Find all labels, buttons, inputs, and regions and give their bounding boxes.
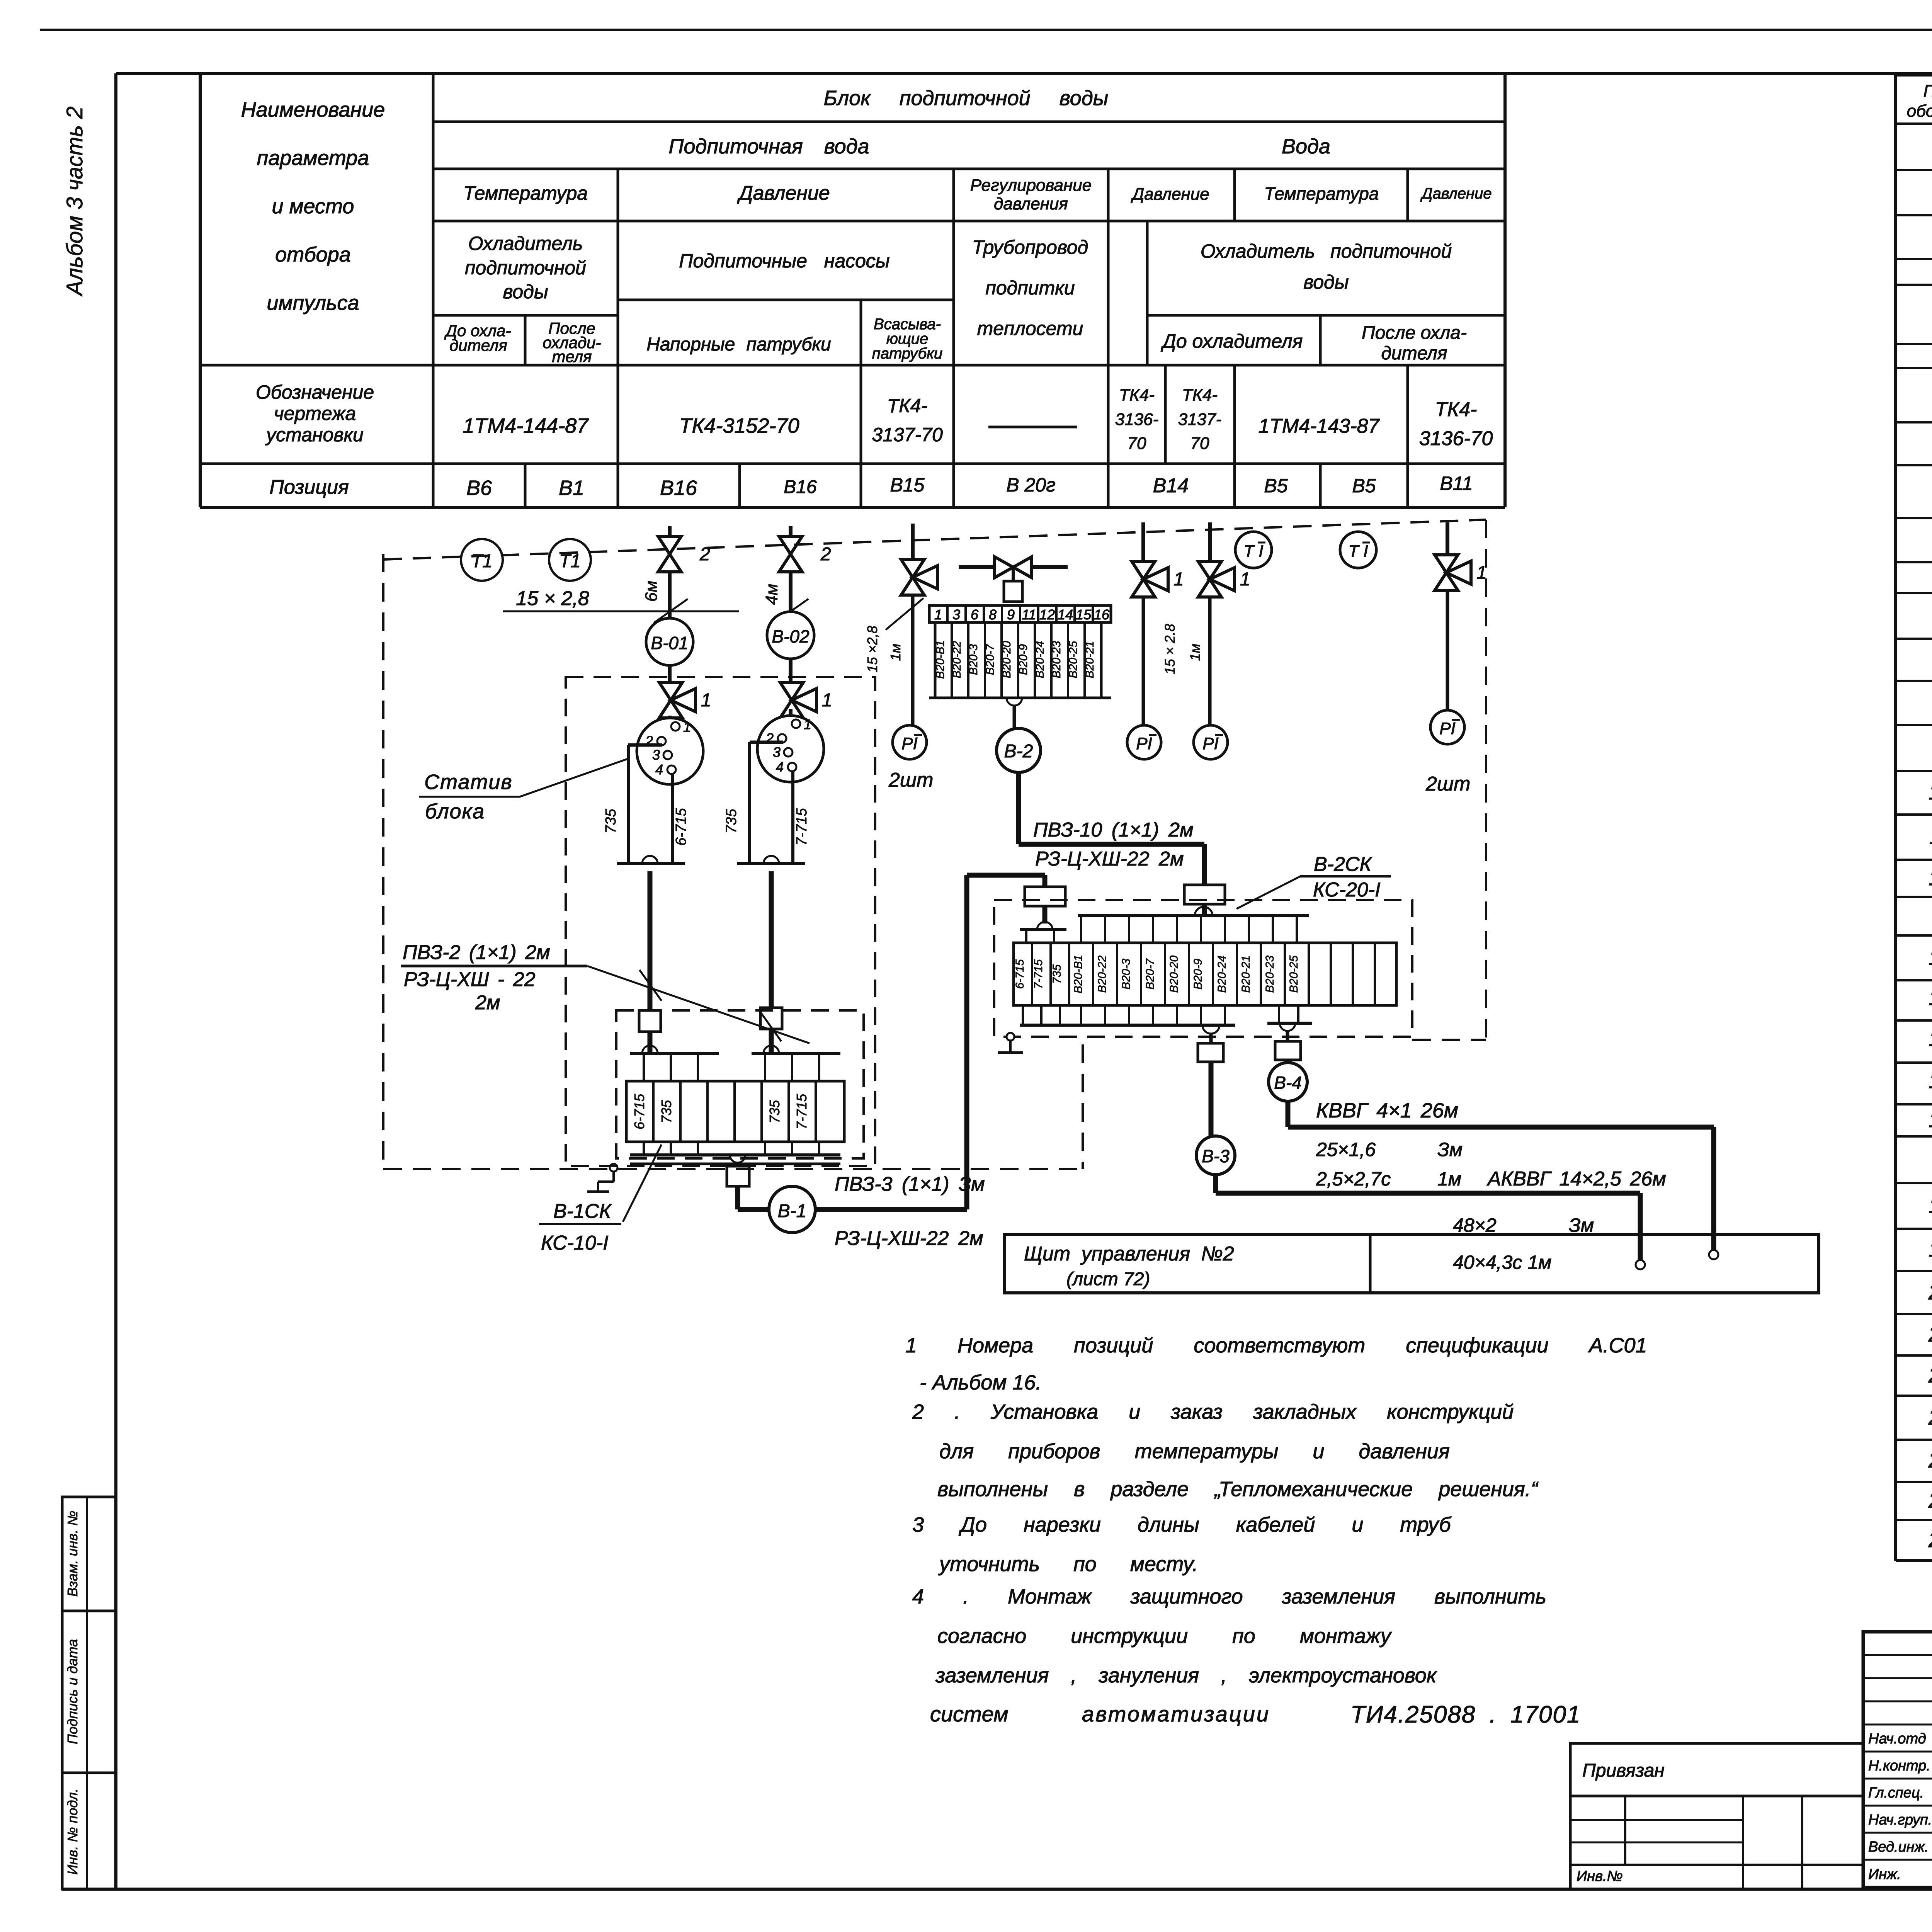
junction circle B-2 <box>997 728 1041 772</box>
svg-text:40×4,3с 1м: 40×4,3с 1м <box>1453 1252 1551 1273</box>
svg-text:РI: РI <box>901 734 918 753</box>
pressure gauge PI right <box>1430 710 1464 744</box>
thermometer circle T1 a <box>461 539 503 581</box>
svg-text:70: 70 <box>1128 434 1146 453</box>
svg-text:В20-24: В20-24 <box>1034 641 1046 679</box>
svg-text:2шт: 2шт <box>1425 773 1470 795</box>
svg-text:В20-25: В20-25 <box>1287 955 1300 993</box>
svg-text:Давление: Давление <box>1130 185 1209 204</box>
svg-text:Подпиточные насосы: Подпиточные насосы <box>679 250 889 272</box>
impulse line to T1 sensor 2 <box>789 526 793 612</box>
svg-text:6-715: 6-715 <box>631 1094 647 1129</box>
svg-text:КС-10-I: КС-10-I <box>541 1232 609 1254</box>
svg-text:3: 3 <box>952 607 960 622</box>
svg-text:1ТМ4-143-87: 1ТМ4-143-87 <box>1259 415 1380 437</box>
control panel box <box>1005 1235 1819 1293</box>
svg-text:19: 19 <box>1929 1237 1932 1261</box>
wire B-3 to panel <box>1213 1175 1218 1193</box>
svg-text:11: 11 <box>1929 824 1932 849</box>
svg-text:параметра: параметра <box>257 146 369 170</box>
transmitter head 1 <box>668 716 672 726</box>
svg-text:4: 4 <box>776 759 784 775</box>
svg-text:РI: РI <box>1136 734 1152 753</box>
svg-text:В-2: В-2 <box>1004 741 1033 762</box>
svg-text:согласно инструкции по: согласно инструкции по монтажу <box>937 1624 1392 1648</box>
impulse line to PI right <box>1446 522 1449 555</box>
svg-text:6-715: 6-715 <box>1014 959 1026 989</box>
svg-text:11: 11 <box>1022 607 1036 622</box>
svg-text:1: 1 <box>683 719 691 735</box>
svg-text:1м: 1м <box>1437 1168 1461 1190</box>
svg-text:В20-23: В20-23 <box>1264 955 1276 993</box>
svg-text:Нач.отд: Нач.отд <box>1868 1731 1926 1747</box>
svg-text:Инв.№: Инв.№ <box>1577 1868 1623 1884</box>
svg-text:Инв. № подл.: Инв. № подл. <box>65 1788 80 1874</box>
svg-text:Статив: Статив <box>424 770 513 794</box>
svg-text:Зм: Зм <box>1569 1214 1594 1236</box>
terminal block B-1CK bus top <box>642 1046 658 1053</box>
svg-text:ТИ4.25088 . 17001: ТИ4.25088 . 17001 <box>1350 1701 1581 1728</box>
thermometer circle T1 b <box>549 539 591 581</box>
svg-text:ТК4-3152-70: ТК4-3152-70 <box>679 414 799 437</box>
svg-text:Охладитель: Охладитель <box>468 233 583 254</box>
svg-text:автоматизации: автоматизации <box>1082 1702 1270 1726</box>
terminal block V-2CK cells <box>1014 943 1396 1005</box>
svg-text:теплосети: теплосети <box>977 318 1083 339</box>
svg-text:До охладителя: До охладителя <box>1161 330 1303 352</box>
svg-text:В20-23: В20-23 <box>1050 641 1063 678</box>
svg-text:В-3: В-3 <box>1202 1146 1230 1166</box>
junction circle B-4 <box>1269 1063 1307 1101</box>
valve 2 on line B6 <box>658 536 681 554</box>
svg-text:1м: 1м <box>888 644 903 661</box>
svg-text:воды: воды <box>503 281 548 303</box>
svg-text:Трубопровод: Трубопровод <box>972 236 1088 258</box>
double rail bottom B-1CK <box>630 1163 840 1165</box>
svg-text:В20-20: В20-20 <box>1000 641 1013 678</box>
svg-text:В20-22: В20-22 <box>951 641 963 678</box>
svg-text:Температура: Температура <box>463 182 588 204</box>
svg-text:3: 3 <box>773 744 781 760</box>
impulse line with valve to PI left <box>911 524 915 560</box>
svg-text:14: 14 <box>1058 607 1073 622</box>
svg-text:РЗ-Ц-ХШ-22 2м: РЗ-Ц-ХШ-22 2м <box>1035 848 1184 870</box>
svg-text:Щит управления №2: Щит управления №2 <box>1024 1243 1234 1265</box>
svg-text:Привязан: Привязан <box>1582 1760 1665 1781</box>
svg-text:1 Номера позиций соотве: 1 Номера позиций соответствуют специфика… <box>905 1334 1647 1357</box>
svg-text:26: 26 <box>1928 1527 1932 1552</box>
svg-text:7-715: 7-715 <box>1032 959 1045 989</box>
strip bottom rail to B-2 <box>929 697 1111 699</box>
svg-text:16: 16 <box>1094 607 1110 622</box>
svg-text:В20-9: В20-9 <box>1192 959 1204 990</box>
valve 1 under B-02 <box>780 682 803 700</box>
svg-text:735: 735 <box>723 808 740 833</box>
svg-text:Т I: Т I <box>1243 542 1263 561</box>
svg-text:15 × 2,8: 15 × 2,8 <box>516 587 589 610</box>
svg-text:дителя: дителя <box>449 336 507 354</box>
svg-text:3 До нарезки длины к: 3 До нарезки длины кабелей и труб <box>912 1513 1451 1536</box>
svg-text:ПВЗ-10 (1×1) 2м: ПВЗ-10 (1×1) 2м <box>1033 819 1194 841</box>
svg-text:В1: В1 <box>559 476 584 500</box>
svg-text:После охла-: После охла- <box>1362 323 1467 343</box>
svg-text:Вода: Вода <box>1282 135 1330 158</box>
svg-text:Инж.: Инж. <box>1868 1866 1901 1883</box>
svg-text:Обозначение: Обозначение <box>256 381 374 403</box>
svg-text:735: 735 <box>603 808 619 833</box>
svg-text:воды: воды <box>1303 271 1349 293</box>
svg-text:2шт: 2шт <box>888 769 933 791</box>
svg-text:давления: давления <box>994 194 1068 213</box>
svg-text:1: 1 <box>1476 563 1487 583</box>
svg-text:1: 1 <box>1173 569 1184 590</box>
svg-text:Взам. инв. №: Взам. инв. № <box>65 1511 80 1597</box>
block V-2CK top bus left <box>1020 928 1066 931</box>
instrument B-02 <box>767 612 814 659</box>
svg-text:В11: В11 <box>1440 473 1473 494</box>
svg-text:установки: установки <box>265 424 364 446</box>
terminal strip V20 top <box>935 622 1101 698</box>
svg-text:ТК4-: ТК4- <box>1182 386 1218 405</box>
exit to B-4 <box>1278 1005 1280 1023</box>
svg-text:Подпиточная вода: Подпиточная вода <box>668 135 869 158</box>
junction circle B-1 <box>769 1186 815 1233</box>
svg-text:В5: В5 <box>1352 475 1376 497</box>
svg-text:В-2СК: В-2СК <box>1314 853 1372 876</box>
svg-text:Регулирование: Регулирование <box>970 176 1092 195</box>
svg-text:В14: В14 <box>1153 474 1189 497</box>
svg-text:13: 13 <box>1929 945 1932 969</box>
svg-text:2 . Установка и заказ: 2 . Установка и заказ закладных конструк… <box>912 1400 1514 1423</box>
svg-text:Гл.спец.: Гл.спец. <box>1868 1785 1924 1801</box>
svg-text:импульса: импульса <box>267 291 359 315</box>
svg-text:Давление: Давление <box>1420 185 1492 202</box>
cable pair under transmitter 1 <box>628 743 662 747</box>
svg-text:систем: систем <box>930 1702 1009 1726</box>
drain stub on B-1CK <box>610 1164 617 1172</box>
drawing frame <box>114 73 117 1889</box>
transmitter head 2 <box>789 709 793 719</box>
svg-text:1м: 1м <box>1187 644 1203 661</box>
svg-text:патрубки: патрубки <box>872 345 943 362</box>
svg-text:В20-21: В20-21 <box>1240 956 1252 993</box>
svg-text:РЗ-Ц-ХШ - 22: РЗ-Ц-ХШ - 22 <box>404 968 536 991</box>
dashed enclosure stativ <box>566 677 875 1166</box>
svg-text:КС-20-I: КС-20-I <box>1313 879 1381 901</box>
svg-text:АКВВГ 14×2,5 26м: АКВВГ 14×2,5 26м <box>1486 1168 1666 1190</box>
collector to B-1 <box>730 1155 745 1163</box>
pressure gauge PI left <box>893 725 927 759</box>
svg-text:Напорные патрубки: Напорные патрубки <box>646 334 831 355</box>
valve 1 under B-01 <box>659 682 682 700</box>
privyazan box <box>1570 1743 1863 1889</box>
svg-text:(лист 72): (лист 72) <box>1066 1269 1150 1289</box>
cable pair under transmitter 2 <box>750 741 783 744</box>
svg-text:4 . Монтаж защитного за: 4 . Монтаж защитного заземления выполнит… <box>912 1585 1546 1608</box>
svg-text:2м: 2м <box>475 992 500 1014</box>
svg-text:В20-3: В20-3 <box>1120 959 1133 990</box>
svg-text:В-02: В-02 <box>772 626 809 646</box>
overline marks on instrument letters <box>914 734 922 736</box>
svg-text:В20-24: В20-24 <box>1216 956 1228 993</box>
svg-text:1: 1 <box>822 690 832 711</box>
svg-text:1ТМ4-144-87: 1ТМ4-144-87 <box>463 414 589 437</box>
svg-text:21: 21 <box>1928 1322 1932 1346</box>
svg-text:РI: РI <box>1439 719 1456 738</box>
instrument B-01 <box>646 618 693 665</box>
svg-text:18: 18 <box>1929 1193 1932 1218</box>
svg-text:15: 15 <box>1929 1026 1932 1051</box>
svg-text:Зм: Зм <box>1437 1139 1463 1160</box>
dashed enclosure B-1CK <box>616 1010 864 1158</box>
svg-text:В20-7: В20-7 <box>1144 958 1156 990</box>
svg-text:В20-25: В20-25 <box>1067 641 1080 678</box>
svg-text:В-4: В-4 <box>1274 1073 1302 1093</box>
svg-text:7-715: 7-715 <box>794 808 810 846</box>
svg-text:3136-70: 3136-70 <box>1419 427 1493 450</box>
svg-text:735: 735 <box>767 1100 782 1123</box>
svg-text:48×2: 48×2 <box>1453 1214 1497 1236</box>
svg-text:В16: В16 <box>660 476 697 500</box>
svg-text:Т I: Т I <box>1348 542 1368 561</box>
pressure gauges PI middle pair <box>1141 522 1145 561</box>
svg-text:ТК4-: ТК4- <box>887 395 927 417</box>
wire B-4 to panel <box>1286 1101 1291 1127</box>
svg-text:обознач.: обознач. <box>1907 102 1932 121</box>
svg-text:Подпись и дата: Подпись и дата <box>65 1639 80 1744</box>
svg-text:ПВЗ-2 (1×1) 2м: ПВЗ-2 (1×1) 2м <box>403 941 550 964</box>
wire B-02 to valve <box>789 659 793 685</box>
svg-text:В-1СК: В-1СК <box>553 1200 612 1223</box>
svg-text:2,5×2,7с: 2,5×2,7с <box>1316 1168 1391 1190</box>
svg-text:12: 12 <box>1039 607 1055 622</box>
svg-text:15 × 2.8: 15 × 2.8 <box>1162 624 1178 674</box>
svg-text:2: 2 <box>820 544 831 565</box>
svg-text:735: 735 <box>1051 964 1063 984</box>
svg-text:1: 1 <box>934 607 942 622</box>
control valve with actuator <box>959 565 1068 569</box>
svg-text:6м: 6м <box>642 581 661 602</box>
svg-text:В20-3: В20-3 <box>967 644 980 675</box>
title block left rows <box>1863 1654 1932 1656</box>
svg-text:4м: 4м <box>762 584 781 605</box>
svg-text:- Альбом 16.: - Альбом 16. <box>920 1371 1041 1394</box>
specification table grid <box>1896 73 1932 77</box>
svg-text:Нач.груп.: Нач.груп. <box>1868 1812 1932 1828</box>
svg-text:В20-21: В20-21 <box>1083 641 1096 679</box>
leader PV3-2 to drops <box>587 966 810 1043</box>
svg-text:подпиточной: подпиточной <box>465 257 586 279</box>
svg-text:25×1,6: 25×1,6 <box>1316 1139 1376 1160</box>
svg-text:15: 15 <box>1076 607 1092 622</box>
junction circle B-3 <box>1196 1136 1235 1175</box>
numbered strip header <box>929 605 1111 622</box>
terminal block B-1CK cells <box>626 1081 844 1142</box>
svg-text:22: 22 <box>1928 1363 1932 1387</box>
thermometer circles TI <box>1235 532 1272 568</box>
exit to B-3 <box>1202 1025 1219 1034</box>
svg-text:1: 1 <box>804 716 811 732</box>
drop cable transmitter 2 to box KC-10 <box>764 856 779 864</box>
svg-text:Альбом 3 часть 2: Альбом 3 часть 2 <box>62 106 87 297</box>
svg-text:12: 12 <box>1929 866 1932 890</box>
svg-text:70: 70 <box>1190 434 1209 453</box>
svg-text:В20-В1: В20-В1 <box>934 640 947 679</box>
svg-text:ПВЗ-3 (1×1) Зм: ПВЗ-3 (1×1) Зм <box>835 1173 985 1196</box>
svg-text:1: 1 <box>1240 569 1250 590</box>
left margin stamp strip <box>62 1497 116 1889</box>
drop cable transmitter 1 to box KC-10 <box>642 856 658 864</box>
svg-text:и место: и место <box>272 195 354 218</box>
dashed enclosure V-2CK <box>994 900 1412 1037</box>
svg-text:В20-22: В20-22 <box>1096 955 1109 993</box>
svg-text:16: 16 <box>1929 1068 1932 1093</box>
svg-text:20: 20 <box>1928 1280 1932 1304</box>
svg-text:дителя: дителя <box>1381 343 1447 364</box>
svg-text:В 20г: В 20г <box>1006 474 1056 496</box>
svg-text:Поз.: Поз. <box>1923 82 1932 100</box>
svg-text:10: 10 <box>1929 780 1932 804</box>
svg-text:15 ×2,8: 15 ×2,8 <box>864 626 880 672</box>
svg-text:В-01: В-01 <box>651 633 688 653</box>
svg-text:Блок подпиточной воды: Блок подпиточной воды <box>824 87 1109 110</box>
svg-text:теля: теля <box>552 347 592 366</box>
svg-text:для приборов температур: для приборов температуры и давления <box>939 1440 1450 1463</box>
svg-text:РI: РI <box>1202 734 1219 753</box>
svg-text:3136-: 3136- <box>1115 410 1159 429</box>
wire B-01 to valve <box>668 665 672 685</box>
parameter table grid <box>200 72 1505 75</box>
svg-text:уточнить по месту.: уточнить по месту. <box>938 1553 1198 1576</box>
svg-text:ТК4-: ТК4- <box>1435 398 1477 421</box>
svg-text:4: 4 <box>655 762 663 777</box>
valve 2 on line B1 <box>779 536 802 554</box>
svg-text:В20-В1: В20-В1 <box>1072 955 1085 993</box>
svg-text:В20-7: В20-7 <box>984 644 997 675</box>
svg-text:735: 735 <box>658 1100 674 1123</box>
svg-text:заземления , зануления , элек: заземления , зануления , электроустаново… <box>935 1664 1437 1687</box>
svg-text:1: 1 <box>701 690 711 711</box>
block V-2CK bottom bus <box>1022 1005 1024 1025</box>
outer dashed boundary <box>383 520 1486 560</box>
svg-text:отбора: отбора <box>275 243 351 266</box>
impulse line to T1 sensor 1 <box>668 526 672 618</box>
svg-text:КВВГ 4×1 26м: КВВГ 4×1 26м <box>1316 1099 1458 1122</box>
svg-text:В15: В15 <box>890 474 925 496</box>
terminal block B-1CK bus bottom <box>643 1142 645 1155</box>
svg-text:6: 6 <box>971 607 979 622</box>
svg-text:В16: В16 <box>784 477 817 497</box>
svg-text:Вед.инж.: Вед.инж. <box>1868 1839 1929 1855</box>
svg-text:17: 17 <box>1929 1107 1932 1132</box>
svg-text:чертежа: чертежа <box>274 403 356 424</box>
svg-text:РЗ-Ц-ХШ-22 2м: РЗ-Ц-ХШ-22 2м <box>835 1227 983 1250</box>
wire B-2 to block V-2CK <box>1016 772 1021 844</box>
block V-2CK top bus main <box>1078 914 1309 917</box>
svg-text:3: 3 <box>652 747 660 763</box>
svg-text:В6: В6 <box>466 476 492 500</box>
svg-text:подпитки: подпитки <box>985 277 1075 299</box>
ground at V-2CK <box>1007 1033 1014 1041</box>
svg-text:Позиция: Позиция <box>269 476 349 498</box>
svg-text:выполнены в разделе: выполнены в разделе „Тепломеханические р… <box>937 1478 1539 1501</box>
svg-text:Температура: Температура <box>1264 184 1379 204</box>
svg-text:3137-70: 3137-70 <box>872 424 943 446</box>
svg-text:Наименование: Наименование <box>241 98 385 121</box>
svg-text:8: 8 <box>989 607 997 622</box>
svg-text:В-1: В-1 <box>778 1201 807 1221</box>
svg-text:ТК4-: ТК4- <box>1119 386 1155 405</box>
svg-text:В20-9: В20-9 <box>1017 644 1030 675</box>
svg-text:23: 23 <box>1928 1405 1932 1429</box>
svg-text:14: 14 <box>1929 985 1932 1010</box>
svg-text:9: 9 <box>1007 607 1015 622</box>
svg-text:Охладитель подпиточной: Охладитель подпиточной <box>1201 240 1452 262</box>
svg-text:Давление: Давление <box>737 182 830 204</box>
svg-text:24: 24 <box>1928 1448 1932 1472</box>
svg-text:25: 25 <box>1928 1488 1932 1512</box>
svg-text:В20-20: В20-20 <box>1168 955 1180 993</box>
svg-text:В5: В5 <box>1264 475 1287 497</box>
dash in designation row <box>988 426 1077 429</box>
page top trim line <box>40 29 1932 31</box>
wire B-1 to control panel riser <box>815 1207 967 1212</box>
svg-text:3137-: 3137- <box>1178 410 1222 429</box>
svg-text:Н.контр.: Н.контр. <box>1868 1758 1930 1774</box>
svg-text:7-715: 7-715 <box>794 1094 810 1129</box>
svg-text:6-715: 6-715 <box>673 808 689 846</box>
title block frame <box>1863 1632 1932 1888</box>
svg-text:блока: блока <box>425 800 485 823</box>
svg-text:Т1: Т1 <box>471 551 493 571</box>
